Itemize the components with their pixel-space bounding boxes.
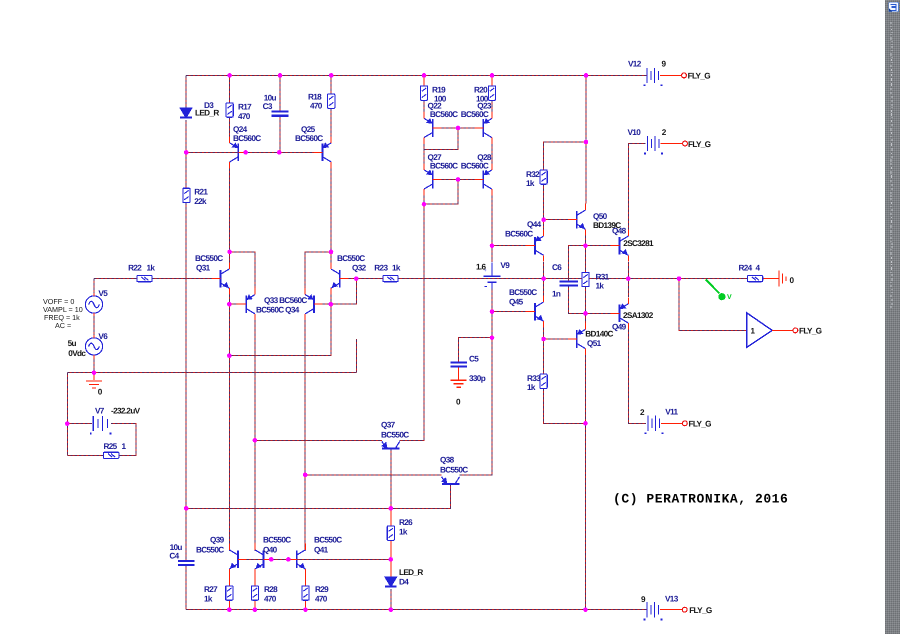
- wire C4 to bottom rail: [185, 565, 187, 610]
- pin buffer output: [772, 329, 793, 331]
- wire Q45 base node to Q38 collector: [460, 338, 493, 475]
- svg-text:Q24: Q24: [233, 125, 248, 134]
- junction rail C4: [184, 506, 189, 511]
- wire node A to R31: [585, 246, 587, 273]
- pin ground stem: [93, 373, 95, 381]
- svg-text:R17: R17: [238, 103, 252, 112]
- wire C3 bottom to bias row: [279, 116, 281, 153]
- svg-text:V9: V9: [500, 261, 510, 270]
- svg-text:R24: R24: [739, 263, 753, 272]
- junction Q51 base node: [541, 337, 546, 342]
- svg-text:BD140C: BD140C: [585, 330, 613, 339]
- wire Q44 collector to rail: [543, 262, 545, 279]
- wire x586 column top: [585, 75, 587, 203]
- junction C3 bias: [277, 150, 282, 155]
- junction R17 rail: [227, 73, 232, 78]
- transistor Q51: [568, 323, 585, 355]
- wire Q22 base to Q23 base: [433, 127, 484, 129]
- svg-text:R25: R25: [104, 442, 118, 451]
- svg-text:R26: R26: [399, 518, 413, 527]
- wire V9 bottom to Q45 base node: [491, 288, 493, 338]
- svg-text:Q41: Q41: [314, 545, 329, 554]
- svg-text:1k: 1k: [526, 179, 535, 188]
- junction Q41 base pin: [286, 557, 291, 562]
- junction Q33 base: [227, 302, 232, 307]
- wire Q33 collector down to Q40 collector: [254, 320, 256, 551]
- svg-text:R19: R19: [432, 86, 446, 95]
- svg-text:BC560C Q34: BC560C Q34: [256, 306, 300, 315]
- pin R24 to ground: [763, 278, 779, 280]
- transistor Q32: [331, 263, 348, 295]
- svg-text:(C) PERATRONIKA, 2016: (C) PERATRONIKA, 2016: [613, 492, 788, 507]
- source V12: [644, 68, 663, 86]
- svg-text:470: 470: [310, 102, 323, 111]
- junction Q34 base: [329, 302, 334, 307]
- resistor R28: [251, 586, 258, 600]
- wire C6 bottom to node B: [569, 286, 586, 314]
- transistor Q33: [238, 288, 255, 320]
- wire R32 to Q44 node: [543, 184, 545, 230]
- pin Q40 emitter to R28: [254, 575, 256, 585]
- svg-text:R21: R21: [194, 188, 208, 197]
- svg-text:470: 470: [315, 594, 328, 603]
- svg-text:BC560C: BC560C: [505, 230, 533, 239]
- svg-text:R22: R22: [128, 263, 142, 272]
- junction R26 rail: [389, 506, 394, 511]
- svg-text:FLY_G: FLY_G: [688, 72, 711, 81]
- ground 0 C5: [451, 380, 467, 387]
- wire mirror diode tie lower: [424, 180, 458, 205]
- junction bottom rail R29: [303, 607, 308, 612]
- svg-text:2SA1302: 2SA1302: [623, 311, 654, 320]
- transistor Q25: [314, 136, 331, 168]
- transistor Q23: [475, 112, 492, 144]
- wire node A to Q48 base: [586, 245, 611, 247]
- svg-text:R28: R28: [264, 585, 278, 594]
- wire input row V5 to R22: [93, 279, 95, 293]
- svg-text:R29: R29: [315, 585, 329, 594]
- wire V6 to ground junction: [93, 355, 95, 373]
- junction node A: [583, 243, 588, 248]
- resistor R33: [540, 374, 547, 388]
- junction Q40 base pin: [269, 557, 274, 562]
- svg-text:V7: V7: [95, 406, 105, 415]
- resistor R21: [183, 188, 190, 202]
- wire Q33 base lead: [229, 303, 237, 305]
- junction mirror base upper: [456, 126, 461, 131]
- svg-text:BC550C: BC550C: [381, 430, 409, 439]
- resistor R31: [582, 272, 589, 286]
- pin C5 to ground: [458, 367, 460, 380]
- wire C5 branch: [459, 338, 492, 363]
- wire Q24 collector down to cascode node: [229, 169, 231, 252]
- junction Q32 base R23: [354, 276, 359, 281]
- wire left rail top to D3: [185, 75, 187, 107]
- wire Q49 emitter to rail: [627, 279, 629, 298]
- resistor R22: [137, 276, 152, 282]
- resistor R19: [420, 86, 427, 100]
- svg-text:Q40: Q40: [263, 545, 278, 554]
- pin V12 to FLY_G: [660, 74, 681, 76]
- svg-text:BC560C: BC560C: [295, 134, 323, 143]
- junction R33 bottom: [583, 421, 588, 426]
- svg-text:BC560C: BC560C: [430, 161, 458, 170]
- transistor Q49: [611, 297, 628, 329]
- svg-text:Q39: Q39: [210, 536, 225, 545]
- wire Q32 base to R23: [340, 278, 383, 280]
- junction Q45 base column: [490, 309, 495, 314]
- svg-text:1k: 1k: [204, 594, 213, 603]
- source V11: [645, 416, 664, 434]
- svg-text:Q25: Q25: [301, 125, 316, 134]
- wire Q34 base lead: [323, 303, 331, 305]
- junction V7 loop: [65, 421, 70, 426]
- wire Q32 collector up: [330, 252, 332, 263]
- node FLY_G V11: [682, 421, 687, 426]
- wire Q28 collector down to V9: [491, 196, 493, 263]
- transistor Q37: [382, 441, 400, 448]
- wire Q51 base: [544, 338, 569, 340]
- svg-text:V10: V10: [628, 128, 642, 137]
- svg-text:C5: C5: [469, 355, 479, 364]
- wire Q38 emitter row: [305, 474, 442, 476]
- wire Q31 emitter down: [228, 295, 230, 551]
- wire cascode node to Q31 collector: [229, 252, 231, 263]
- svg-text:-232.2uV: -232.2uV: [111, 406, 141, 415]
- svg-text:V5: V5: [98, 289, 108, 298]
- wire Q37 base stem: [390, 449, 392, 509]
- pin V13 to FLY_G: [660, 609, 682, 611]
- source V10: [644, 136, 663, 154]
- wire R22 to Q31 base: [152, 278, 212, 280]
- wire ground row to feedback stub: [67, 372, 356, 374]
- sidebar icon: [889, 2, 899, 12]
- source V7: [90, 416, 112, 434]
- svg-text:1k: 1k: [527, 383, 536, 392]
- wire R33 to Q51 collector node: [544, 388, 586, 423]
- wire Q32 emitter down and coupling: [229, 295, 331, 356]
- probe V marker: [706, 280, 726, 301]
- wire V5 to V6: [93, 316, 95, 338]
- node FLY_G top: [682, 73, 687, 78]
- svg-text:1k: 1k: [147, 263, 156, 272]
- svg-text:Q38: Q38: [440, 455, 455, 464]
- wire Q37 emitter row: [255, 439, 382, 441]
- wire R21 to lower-left rail: [185, 203, 187, 509]
- svg-text:AC =: AC =: [55, 321, 71, 330]
- transistor Q48: [611, 230, 628, 262]
- svg-text:BC550C: BC550C: [337, 254, 365, 263]
- wire bottom rail: [186, 609, 647, 611]
- node FLY_G V10: [683, 141, 688, 146]
- resistor R32: [540, 170, 547, 184]
- wire feedback branch down: [679, 279, 747, 331]
- junction left rail bias: [184, 150, 189, 155]
- svg-text:BC550C: BC550C: [196, 545, 224, 554]
- resistor R26: [387, 526, 394, 540]
- junction bottom rail x586: [583, 607, 588, 612]
- svg-text:FLY_G: FLY_G: [689, 606, 712, 615]
- junction bottom rail R28: [253, 607, 258, 612]
- wire Q25 collector down to cascode node right: [330, 169, 332, 252]
- junction bottom rail D4: [389, 607, 394, 612]
- pin V11 to FLY_G: [661, 422, 682, 424]
- wire Q27 collector down to Q37 collector: [400, 196, 424, 441]
- junction VAS rail: [541, 276, 546, 281]
- junction R26 bias row: [389, 557, 394, 562]
- svg-text:5u: 5u: [68, 339, 77, 348]
- resistor R27: [226, 586, 233, 600]
- svg-text:C6: C6: [552, 263, 562, 272]
- wire Q34 collector down to Q41 collector: [304, 320, 306, 551]
- wire cascode right to Q34 emitter: [305, 252, 331, 288]
- junction mirror tie: [422, 202, 427, 207]
- wire R19 to Q22 emitter: [423, 100, 425, 112]
- svg-text:R18: R18: [308, 93, 322, 102]
- wire Q51 collector down: [585, 355, 587, 610]
- wire stub up from ground row: [355, 339, 357, 373]
- pin R20 top: [491, 75, 493, 86]
- wire Q51 emitter to node B: [585, 313, 587, 329]
- source V6: [85, 335, 102, 358]
- svg-text:C4: C4: [169, 552, 179, 561]
- svg-text:BC560C: BC560C: [461, 110, 489, 119]
- pin D4 top: [390, 559, 392, 576]
- svg-text:2SC3281: 2SC3281: [623, 239, 654, 248]
- resistor R24: [747, 276, 762, 282]
- junction x586 rail: [584, 73, 589, 78]
- capacitor C6: [559, 281, 578, 285]
- transistor Q45: [526, 296, 543, 328]
- ground 0 output: [779, 271, 786, 287]
- pin R27 bottom: [228, 600, 230, 610]
- resistor R29: [302, 586, 309, 600]
- junction feedback tap: [677, 276, 682, 281]
- transistor Q39: [229, 543, 246, 575]
- pin V10 to FLY_G: [661, 143, 683, 145]
- op-amp U1 buffer: [747, 313, 773, 348]
- pin R28 bottom: [254, 600, 256, 610]
- junction cascode right: [329, 250, 334, 255]
- svg-text:D4: D4: [399, 578, 409, 587]
- transistor Q22: [424, 112, 441, 144]
- transistor Q44: [526, 230, 543, 262]
- resistor R25: [104, 452, 119, 458]
- svg-text:FLY_G: FLY_G: [688, 140, 711, 149]
- transistor Q41: [288, 543, 305, 575]
- transistor Q24: [230, 136, 247, 168]
- svg-text:1.6: 1.6: [476, 262, 487, 271]
- wire VAS base rail: [186, 485, 450, 509]
- wire D3 to bias node: [185, 120, 187, 153]
- svg-text:470: 470: [264, 594, 277, 603]
- junction C3 rail: [278, 73, 283, 78]
- svg-text:Q32: Q32: [352, 264, 367, 273]
- capacitor C5: [450, 362, 467, 366]
- junction output emitters: [626, 276, 631, 281]
- junction cascode left: [227, 250, 232, 255]
- wire R18 top column: [330, 75, 332, 94]
- junction R32 top branch: [584, 140, 589, 145]
- transistor Q27: [424, 164, 441, 196]
- pin R29 bottom: [305, 600, 307, 610]
- svg-text:Q31: Q31: [196, 264, 211, 273]
- transistor Q34: [305, 288, 322, 320]
- wire Q23 collector to Q28 emitter: [491, 144, 493, 164]
- junction R32 Q44: [541, 217, 546, 222]
- wire main output rail: [398, 278, 748, 280]
- transistor Q31: [212, 263, 229, 295]
- svg-text:1k: 1k: [392, 263, 401, 272]
- node FLY_G buffer: [793, 328, 798, 333]
- resistor R17: [226, 103, 233, 117]
- junction emitters coupling: [227, 353, 232, 358]
- svg-text:V6: V6: [98, 332, 108, 341]
- svg-text:BC560C: BC560C: [430, 110, 458, 119]
- svg-text:R33: R33: [527, 374, 541, 383]
- node FLY_G bottom: [682, 607, 687, 612]
- wire top supply rail: [186, 74, 647, 76]
- capacitor C4: [178, 561, 195, 565]
- junction C5 node: [490, 335, 495, 340]
- wire Q45 emitter node: [543, 328, 545, 339]
- ground 0 input: [86, 381, 102, 388]
- svg-text:0Vdc: 0Vdc: [68, 349, 86, 358]
- wire Q32 base node down to Q34 base: [331, 279, 357, 305]
- svg-text:C3: C3: [263, 102, 273, 111]
- wire rail to C4: [185, 508, 187, 560]
- junction Q24 base: [243, 150, 248, 155]
- svg-text:R31: R31: [596, 272, 610, 281]
- svg-text:Q22: Q22: [428, 101, 443, 110]
- wire Q22 collector to Q27 emitter: [423, 144, 425, 164]
- svg-text:BC560C: BC560C: [233, 134, 261, 143]
- wire node A to C6: [569, 246, 586, 282]
- wire bias row to Q24 Q25 bases: [186, 151, 322, 153]
- svg-text:1k: 1k: [399, 527, 408, 536]
- svg-text:Q37: Q37: [381, 420, 396, 429]
- transistor Q40: [255, 543, 272, 575]
- svg-text:BC550C: BC550C: [263, 536, 291, 545]
- LED D3: [180, 108, 192, 118]
- wire C3 top column: [279, 75, 281, 111]
- junction Q38 row: [303, 473, 308, 478]
- wire Q50 emitter to node A: [585, 236, 587, 246]
- wire Q45 node to R33: [543, 339, 545, 374]
- svg-text:V11: V11: [665, 408, 678, 417]
- wire bottom bias row: [247, 558, 391, 560]
- wire left rail R21 column: [185, 152, 187, 188]
- svg-text:BC550C: BC550C: [314, 536, 342, 545]
- wire Q44 base: [492, 245, 526, 247]
- transistor Q38: [442, 477, 460, 484]
- wire corner to R22: [94, 278, 137, 280]
- svg-text:Q45: Q45: [509, 298, 524, 307]
- svg-text:Q51: Q51: [587, 339, 602, 348]
- svg-text:1n: 1n: [552, 290, 561, 299]
- junction R19 rail: [422, 73, 427, 78]
- svg-text:Q23: Q23: [477, 101, 492, 110]
- wire R17 to Q24 emitter: [229, 117, 231, 136]
- svg-text:Q50: Q50: [593, 212, 608, 221]
- source V13: [644, 602, 663, 620]
- wire R31 bottom to node B: [585, 287, 587, 314]
- svg-text:FLY_G: FLY_G: [689, 419, 712, 428]
- svg-text:470: 470: [238, 112, 251, 121]
- pin R26 bottom: [390, 540, 392, 559]
- svg-text:22k: 22k: [194, 197, 207, 206]
- pin Q41 emitter to R29: [305, 575, 307, 585]
- svg-text:1k: 1k: [596, 282, 605, 291]
- svg-text:BC550C: BC550C: [440, 465, 468, 474]
- junction V6 ground: [92, 370, 97, 375]
- svg-text:BC560C: BC560C: [461, 161, 489, 170]
- wire Q27 base to Q28 base: [433, 179, 484, 181]
- resistor R18: [328, 94, 335, 108]
- wire R25 left lead: [67, 454, 103, 456]
- junction node B: [583, 311, 588, 316]
- pin Q39 emitter to R27: [228, 575, 230, 585]
- svg-text:330p: 330p: [469, 374, 486, 383]
- svg-text:Q33 BC560C: Q33 BC560C: [264, 296, 307, 305]
- wire V7 loop left: [66, 373, 68, 456]
- pin R26 top: [390, 508, 392, 526]
- transistor Q50: [568, 204, 585, 236]
- svg-text:Q48: Q48: [612, 227, 627, 236]
- wire Q45 base: [492, 311, 526, 313]
- LED D4: [385, 577, 397, 587]
- resistor R20: [488, 86, 495, 100]
- capacitor C3: [272, 112, 289, 116]
- wire Q48 collector to V10: [628, 144, 645, 230]
- wire mirror diode tie upper: [424, 128, 458, 150]
- wire R17 top column: [229, 75, 231, 102]
- junction mirror base lower: [456, 177, 461, 182]
- svg-text:FLY_G: FLY_G: [799, 326, 822, 335]
- source V9: [484, 262, 501, 288]
- svg-text:R32: R32: [526, 170, 540, 179]
- svg-text:V13: V13: [665, 594, 679, 603]
- wire R18 to Q25 emitter: [330, 108, 332, 136]
- wire Q49 collector to V11: [628, 330, 646, 424]
- right sidebar strip: [885, 0, 900, 634]
- junction bottom rail R27: [227, 607, 232, 612]
- svg-text:Q44: Q44: [527, 220, 542, 229]
- wire cascode node to Q33 emitter: [230, 252, 255, 288]
- wire Q50 base: [544, 219, 569, 221]
- wire R32 branch: [544, 142, 586, 170]
- wire Q45 collector to rail: [543, 279, 545, 296]
- sidebar vertical text marks: [890, 22, 891, 24]
- transistor Q28: [475, 164, 492, 196]
- wire node B to Q49 base: [586, 312, 611, 314]
- wire D4 to bottom rail: [390, 589, 392, 610]
- svg-text:R27: R27: [204, 585, 218, 594]
- wire R20 to Q23 emitter: [491, 100, 493, 112]
- svg-text:R23: R23: [374, 263, 388, 272]
- junction Q44 base column: [490, 243, 495, 248]
- svg-text:BC550C: BC550C: [509, 288, 537, 297]
- svg-text:BC550C: BC550C: [195, 254, 223, 263]
- source V5: [85, 293, 102, 316]
- pin R19 top: [423, 75, 425, 86]
- wire V7 left lead: [67, 423, 92, 425]
- svg-text:LED_R: LED_R: [399, 568, 423, 577]
- resistor R23: [383, 276, 398, 282]
- svg-text:Q49: Q49: [612, 322, 627, 331]
- svg-text:LED_R: LED_R: [195, 108, 219, 117]
- wire V7 right lead: [111, 424, 136, 456]
